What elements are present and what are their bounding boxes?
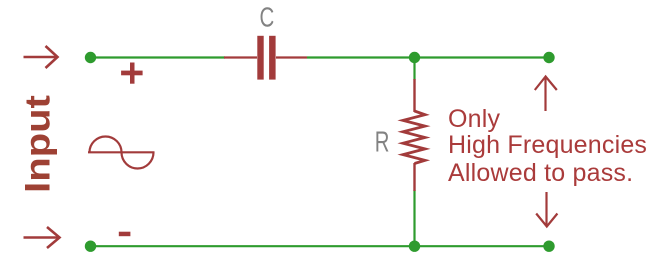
capacitor C left lead (224, 56, 257, 58)
wire: top rail left segment (green) (90, 56, 225, 58)
node: top junction at R branch (409, 52, 420, 63)
svg-text:Allowed to pass.: Allowed to pass. (448, 159, 633, 187)
svg-text:Input: Input (18, 95, 57, 193)
node: bottom-right terminal (543, 241, 554, 252)
node: bottom-left terminal (85, 241, 96, 252)
node: top-right terminal (543, 52, 554, 63)
resistor R top lead (413, 79, 415, 112)
label + (source positive) (121, 63, 143, 84)
wire: top rail right segment (green) (307, 56, 549, 58)
resistor R zigzag (403, 111, 425, 164)
wire: bottom rail (green) (90, 245, 549, 247)
svg-text:Only: Only (448, 105, 501, 133)
svg-text:R: R (375, 126, 390, 158)
capacitor C left plate (257, 36, 263, 80)
node: top-left terminal (85, 52, 96, 63)
arrow: input top (points right) (24, 46, 58, 68)
label - (source negative) (119, 232, 131, 237)
source: sine wave symbol (88, 137, 155, 169)
arrow: input bottom (points right) (24, 227, 60, 248)
svg-text:C: C (260, 3, 275, 34)
node: bottom junction at R branch (409, 241, 420, 252)
arrow: output top (points up) (535, 77, 557, 112)
wire: vertical branch upper segment (green) (413, 58, 415, 81)
svg-text:High Frequencies: High Frequencies (448, 131, 647, 159)
resistor R bottom lead (413, 163, 415, 191)
label C (260, 3, 275, 34)
wire: vertical branch lower segment (green) (413, 190, 415, 246)
capacitor C right lead (276, 56, 307, 58)
capacitor C right plate (269, 36, 276, 80)
label R (375, 126, 390, 158)
arrow: output bottom (points down) (536, 192, 557, 227)
